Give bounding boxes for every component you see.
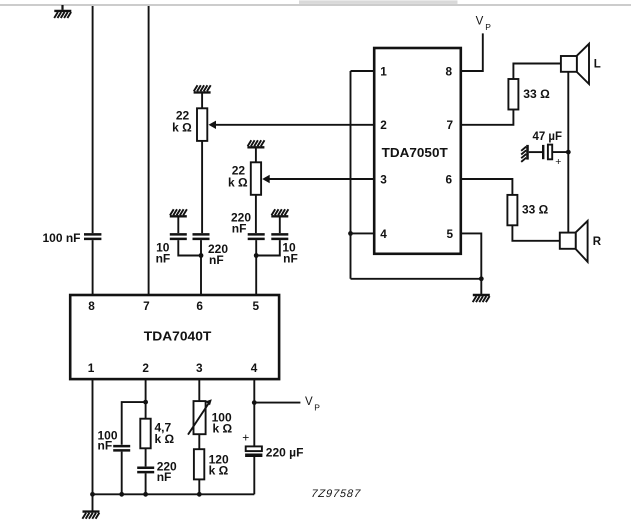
node xyxy=(143,492,148,497)
wire xyxy=(201,93,203,108)
wire (10 nF to junction) xyxy=(178,240,201,255)
svg-text:TDA7050T: TDA7050T xyxy=(382,145,448,160)
ground (above right 10 nF) xyxy=(271,209,288,216)
svg-text:8: 8 xyxy=(446,64,453,78)
wire (pin 2 to 4.7 k) xyxy=(145,402,147,419)
svg-text:4: 4 xyxy=(380,227,387,241)
node xyxy=(348,231,353,236)
svg-text:6: 6 xyxy=(446,173,453,187)
svg-text:nF: nF xyxy=(283,252,298,266)
capacitor 220 nF (left pair) xyxy=(193,234,210,239)
svg-text:1: 1 xyxy=(380,64,387,78)
wire xyxy=(255,148,257,162)
wire (220 nF down) xyxy=(200,240,202,255)
svg-text:5: 5 xyxy=(253,299,260,313)
wire (junction to pin 6 TDA7040T) xyxy=(200,256,202,297)
svg-text:k Ω: k Ω xyxy=(209,463,229,477)
node xyxy=(252,400,257,405)
wire (100 nF down to rail) xyxy=(121,452,123,495)
wire (33 Ohm up to speaker L) xyxy=(513,64,561,80)
svg-text:8: 8 xyxy=(88,299,95,313)
capacitor 220 nF (below 4.7 k) xyxy=(137,468,154,472)
capacitor 10 nF (right) xyxy=(271,234,288,239)
potentiometer 100 kOhm (volume) xyxy=(188,399,212,434)
wire xyxy=(279,217,281,233)
svg-text:4: 4 xyxy=(251,361,258,375)
svg-text:k Ω: k Ω xyxy=(213,421,233,435)
wire (junction to pin 5 TDA7040T) xyxy=(255,256,257,297)
svg-text:33 Ω: 33 Ω xyxy=(522,203,549,217)
svg-text:R: R xyxy=(593,236,602,248)
svg-text:33 Ω: 33 Ω xyxy=(523,87,550,101)
svg-text:nF: nF xyxy=(232,222,247,236)
wire (220 nF down to rail) xyxy=(145,473,147,494)
wire (220 uF down to rail) xyxy=(253,457,255,494)
wire (10 nF to junction) xyxy=(256,240,280,255)
svg-text:nF: nF xyxy=(156,252,171,266)
wire xyxy=(198,434,200,449)
capacitor 100 nF (pin 2 decoupling) xyxy=(113,446,130,450)
wire (pin 5 right and down) xyxy=(461,233,482,278)
svg-text:V: V xyxy=(305,396,313,408)
wire (pin 4 left) xyxy=(351,232,375,234)
svg-text:47 µF: 47 µF xyxy=(533,129,563,143)
wire (33 Ohm down to speaker R) xyxy=(512,225,559,241)
wire (ground rail) xyxy=(93,493,255,495)
node Vp (supply) xyxy=(305,396,320,412)
wire (pot 2 wiper to pin 3 TDA7050T, arrow) xyxy=(262,175,374,183)
wire (100 nF down to pin 8) xyxy=(92,240,94,296)
svg-text:TDA7040T: TDA7040T xyxy=(144,329,212,344)
svg-text:+: + xyxy=(555,156,561,168)
wire (pin 4 to 220 uF) xyxy=(253,403,255,447)
node xyxy=(197,492,202,497)
wire (bottom to ground junction) xyxy=(351,278,482,280)
node (junction to pin 5) xyxy=(254,253,259,258)
ground (top left) xyxy=(54,5,71,18)
svg-text:6: 6 xyxy=(196,299,203,313)
svg-text:nF: nF xyxy=(209,253,224,267)
wire (pin 2 down) xyxy=(145,379,147,402)
svg-text:k Ω: k Ω xyxy=(155,432,175,446)
wire xyxy=(177,217,179,233)
svg-text:5: 5 xyxy=(447,227,454,241)
ground (above 22 k pot 2) xyxy=(247,140,264,147)
svg-text:L: L xyxy=(594,59,601,71)
wire (pin 8 TDA7040T up to top edge) xyxy=(92,6,94,233)
wire (feedback line pins 1-4) xyxy=(350,71,352,279)
wire (branch to 100 nF) xyxy=(122,402,146,445)
ground (bottom left) xyxy=(82,494,99,518)
svg-text:7Z97587: 7Z97587 xyxy=(311,488,362,500)
speaker L xyxy=(561,44,589,84)
wire xyxy=(145,448,147,466)
resistor 33 Ohm (right channel) xyxy=(507,195,517,225)
capacitor 220 nF (right pair) xyxy=(248,234,265,239)
svg-text:V: V xyxy=(476,15,484,27)
wire (pin 7 TDA7040T up to top edge) xyxy=(148,6,150,296)
node xyxy=(119,492,124,497)
node Vp (supply, top) xyxy=(476,15,492,32)
potentiometer R1 22 kOhm xyxy=(197,108,207,141)
svg-text:2: 2 xyxy=(380,118,387,132)
ground (above left 10 nF) xyxy=(170,209,187,216)
capacitor C 220 uF (electrolytic, + mark) xyxy=(242,430,262,455)
wire (220 nF down) xyxy=(255,240,257,255)
svg-text:+: + xyxy=(242,430,249,444)
svg-text:P: P xyxy=(314,402,320,412)
wire (pot 1 bottom to 220 nF) xyxy=(201,141,203,233)
ground (47 uF) xyxy=(521,145,527,162)
wire (pin 1 down to ground rail) xyxy=(92,379,94,494)
op-amp U1 TDA7040T xyxy=(70,295,279,379)
svg-text:P: P xyxy=(485,22,491,32)
svg-text:nF: nF xyxy=(157,470,172,484)
svg-text:7: 7 xyxy=(143,299,150,313)
svg-text:7: 7 xyxy=(447,118,454,132)
wire (pin 3 down) xyxy=(198,379,200,401)
node xyxy=(143,400,148,405)
resistor 33 Ohm (left channel) xyxy=(508,79,518,110)
wire (pot 2 bottom to 220 nF) xyxy=(255,195,257,233)
svg-text:1: 1 xyxy=(88,361,95,375)
resistor 4,7 kOhm xyxy=(140,419,150,449)
node xyxy=(566,150,571,155)
op-amp U2 TDA7050T xyxy=(374,48,461,254)
svg-text:k Ω: k Ω xyxy=(228,175,248,189)
svg-text:3: 3 xyxy=(380,173,387,187)
svg-text:100 nF: 100 nF xyxy=(43,231,81,245)
node xyxy=(90,492,95,497)
wire (pot 1 wiper to pin 2 TDA7050T, arrow) xyxy=(209,121,375,129)
speaker R xyxy=(560,221,588,262)
wire (speaker common line) xyxy=(567,72,569,233)
wire (pin 8 to Vp) xyxy=(461,33,483,71)
svg-text:3: 3 xyxy=(196,361,203,375)
potentiometer R2 22 kOhm xyxy=(251,162,261,195)
wire xyxy=(529,151,542,153)
node (junction to pin 6) xyxy=(199,253,204,258)
wire (pin 4 to Vp) xyxy=(254,402,300,404)
wire (120 k down to rail) xyxy=(198,479,200,494)
svg-text:k Ω: k Ω xyxy=(172,120,192,134)
wire (pin 6 to 33 Ohm) xyxy=(461,179,513,195)
capacitor C 47 uF (electrolytic) xyxy=(543,145,561,169)
capacitor 10 nF (left) xyxy=(170,234,187,239)
wire (pin 7 to 33 Ohm) xyxy=(461,110,514,125)
ground (above 22 k pot 1) xyxy=(194,85,211,92)
capacitor 100 nF (series, left input line) xyxy=(84,234,101,239)
wire (47 uF to speaker line) xyxy=(552,151,568,153)
svg-text:2: 2 xyxy=(142,361,149,375)
wire (pin 4 down) xyxy=(253,379,255,403)
node xyxy=(479,276,484,281)
resistor 120 kOhm xyxy=(194,449,204,479)
ground (TDA7050T pin 5) xyxy=(473,279,490,302)
svg-text:220 µF: 220 µF xyxy=(266,446,304,460)
wire (pin 1 left) xyxy=(351,70,375,72)
svg-text:nF: nF xyxy=(98,439,113,453)
